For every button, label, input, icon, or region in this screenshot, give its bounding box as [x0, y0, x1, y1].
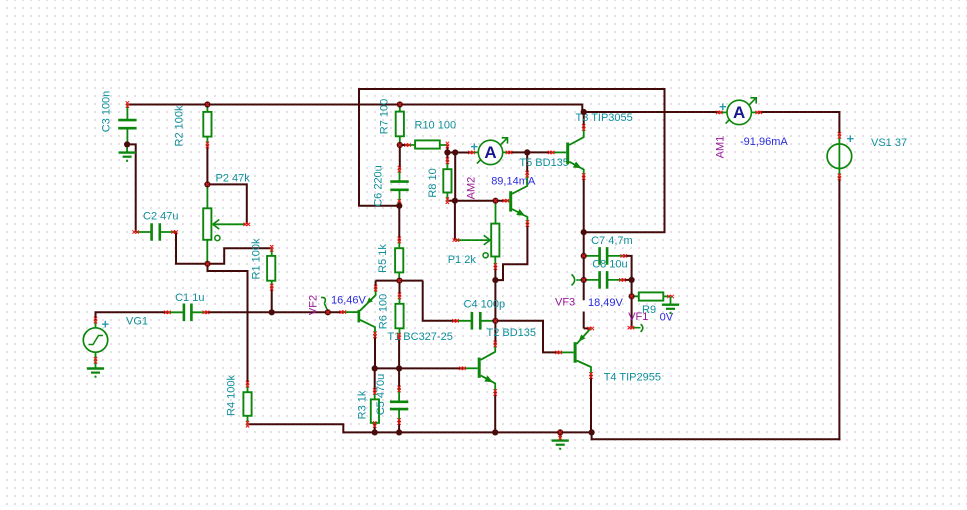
resistor R3 [371, 399, 379, 423]
junction T3 emitter node [581, 229, 587, 235]
wire R7 junction to C6 [399, 145, 401, 169]
pin end x T1 collector [373, 332, 376, 335]
junction C5 bottom rail [396, 429, 402, 435]
wire R4 bottom run [248, 423, 345, 425]
pin x on junction R9 left [630, 295, 634, 299]
potentiometer P1 wiper arrow [484, 235, 491, 245]
pin end x T3 base [548, 151, 551, 154]
pin end x C8 right [619, 278, 622, 281]
wire step up to R4 line [342, 424, 344, 433]
resistor R8 [443, 169, 451, 192]
transistor T2 emitter arrow [484, 375, 494, 385]
svg-text:18,49V: 18,49V [588, 297, 624, 309]
junction C6 bottom [396, 203, 402, 209]
pin end x C2 left [132, 230, 135, 233]
svg-text:0V: 0V [660, 312, 674, 324]
ground under C3 [126, 144, 128, 152]
junction R3 bottom rail [372, 429, 378, 435]
transistor T5 collector [512, 174, 527, 194]
capacitor C2 [152, 223, 160, 241]
svg-text:-91,96mA: -91,96mA [740, 136, 788, 148]
resistor R1 pins [271, 248, 273, 287]
capacitor C7 pins [584, 255, 624, 257]
junction T2 emitter rail [492, 429, 498, 435]
pin end x VG1 bottom [94, 357, 97, 360]
wire R10 left stub [400, 144, 408, 146]
wire R1 bottom to signal line [271, 287, 273, 312]
pin end x R6 bottom [397, 333, 400, 336]
wire AM2 right to T3 base [509, 151, 551, 153]
junction T3 collector node [581, 109, 587, 115]
svg-text:VS1 37: VS1 37 [871, 137, 907, 149]
pin x on junction R2 top [206, 103, 210, 107]
wire R5 bottom node horizontal [376, 280, 423, 282]
wire C5 top [398, 368, 400, 389]
pin end x P1 bottom [494, 263, 497, 266]
junction VF2 node [325, 309, 331, 315]
wire C1 to T1 base signal line [206, 311, 343, 313]
wire step up to bottom rail [591, 432, 593, 440]
capacitor C1 [184, 304, 192, 322]
pin end x C5 bottom [397, 418, 400, 421]
wire R4 top to P2 bottom node [208, 264, 248, 384]
pin x on junction P1 top [494, 199, 498, 203]
pin end x VF1 [628, 326, 631, 329]
transistor T3 emitter [569, 162, 584, 177]
pin end x C1 left [164, 311, 167, 314]
pin end x AM2 left [468, 151, 471, 154]
ammeter AM2 pins [472, 151, 509, 153]
wire C8 node down to VF1 [631, 280, 633, 328]
potentiometer P2 pins [206, 184, 208, 263]
svg-text:C8 10u: C8 10u [592, 259, 627, 271]
pin end x R3 top [373, 388, 376, 391]
transistor T5 emitter [512, 209, 527, 224]
junction C8 left VF3 node [581, 277, 587, 283]
wire T4 collector down to rail [590, 376, 592, 433]
resistor R3 pins [374, 392, 376, 425]
junction rail ground [557, 429, 563, 435]
svg-text:VG1: VG1 [126, 316, 148, 328]
wire VS1 bottom down right side [838, 177, 840, 440]
capacitor C6 [390, 182, 408, 190]
pin end x C6 top [398, 166, 401, 169]
pin end x R1 bottom [270, 284, 273, 287]
svg-text:A: A [484, 143, 496, 162]
junction R10-R8 node [444, 149, 450, 155]
resistor R5 pins [398, 240, 400, 281]
wire R6 bottom to T2 base line [398, 336, 400, 368]
pin end x VS1 bottom [838, 174, 841, 177]
probe VF3 [572, 274, 584, 285]
wire C7 right to C8 right node [624, 256, 632, 280]
resistor R7 [396, 112, 404, 137]
resistor R4 pins [247, 384, 249, 424]
wire to AM1 left [581, 111, 719, 113]
pin end x rail ground [559, 433, 562, 436]
capacitor C5 [390, 402, 408, 409]
wire R5 node to T1 emitter [375, 281, 377, 289]
transistor T2 emitter [481, 375, 496, 392]
wire P1 base line [455, 200, 506, 202]
potentiometer P1 wiper [456, 239, 490, 241]
wire bottom right run [592, 438, 841, 440]
svg-text:AM1: AM1 [715, 136, 727, 159]
ground on bottom rail [559, 432, 561, 440]
transistor T4 base pin [559, 351, 574, 353]
wire T2 emitter down to rail [494, 393, 496, 433]
svg-text:R2 100k: R2 100k [174, 105, 186, 146]
pin end x C4 left [452, 319, 455, 322]
potentiometer P1 o mark [483, 253, 488, 258]
pin end x R6 top [398, 293, 401, 296]
wire R1 top to P2 bottom node [208, 248, 272, 263]
svg-text:R3 1k: R3 1k [357, 390, 369, 419]
pin end x P1 wiper [453, 238, 456, 241]
wire C4 node to T4 base [495, 321, 558, 353]
capacitor C4 pins [456, 320, 496, 322]
junction R7 top [397, 101, 403, 107]
pin end x C5 top [397, 386, 400, 389]
pin end x T1 emitter [374, 285, 377, 288]
junction P2 bottom node [204, 261, 210, 267]
transistor T2 bar [478, 358, 481, 378]
transistor T1 bar [358, 310, 361, 323]
svg-text:C6 220u: C6 220u [373, 165, 385, 207]
svg-text:C2 47u: C2 47u [143, 211, 178, 223]
pin end x R10 left [404, 143, 407, 146]
transistor T2 base pin [463, 367, 478, 369]
transistor T3 collector [569, 128, 584, 146]
svg-text:R5 1k: R5 1k [377, 244, 389, 273]
junction R7 bottom [397, 142, 403, 148]
resistor R5 [395, 248, 403, 272]
resistor R10 [415, 140, 440, 148]
source VS1 circle [827, 144, 852, 169]
wire T1 collector node to T2 base [375, 367, 463, 369]
transistor T3 emitter arrow [573, 162, 583, 172]
wire C8 right stub [622, 279, 631, 281]
pin end x P2 wiper [244, 223, 247, 226]
pin x on junction rail ground [558, 431, 562, 435]
source VG1 waveform [89, 336, 104, 345]
wire P2 bottom to C2 right [174, 232, 207, 264]
pin end x VG1 top [94, 317, 97, 320]
capacitor C6 pins [399, 169, 401, 202]
svg-text:T1 BC327-25: T1 BC327-25 [387, 331, 452, 343]
svg-text:C7 4,7m: C7 4,7m [591, 235, 633, 247]
pin end x R4 bottom [246, 421, 249, 424]
pin end x AM1 left [716, 111, 719, 114]
wire AM1 right to corner [759, 111, 841, 113]
pin end x R5 top [398, 237, 401, 240]
potentiometer P1 body [491, 224, 499, 257]
svg-text:16,46V: 16,46V [331, 295, 367, 307]
pin end x VS1 top [838, 132, 841, 135]
junction R2 top [204, 101, 210, 107]
svg-text:R4 100k: R4 100k [226, 375, 238, 416]
wire rail step down to ammeter line [581, 104, 583, 112]
capacitor C3 pins [126, 105, 128, 145]
label background gap over T5 collector wire [488, 175, 534, 190]
pin end x C6 bottom [398, 199, 401, 202]
svg-text:C3 100n: C3 100n [101, 91, 113, 133]
pin x on junction R5 bottom [398, 279, 402, 283]
pin x on junction C8 left [582, 278, 586, 282]
source VG1 pins [95, 320, 97, 360]
junction T1 collector node [372, 365, 378, 371]
wire corner down to VS1 top [838, 111, 840, 135]
pin x on junction P2 top [206, 183, 210, 187]
junction C4 right node [492, 318, 498, 324]
pin end x AM2 right [506, 151, 509, 154]
ammeter AM1 pins [719, 111, 759, 113]
resistor R7 pins [399, 105, 401, 146]
transistor T3 base pin [551, 151, 566, 153]
transistor T5 emitter arrow [516, 209, 526, 219]
pin end x R4 top [246, 381, 249, 384]
probe VF2 [321, 297, 328, 311]
capacitor C5 pins [398, 389, 400, 422]
pin end x T3 collector [582, 124, 585, 127]
svg-text:R8 10: R8 10 [427, 168, 439, 197]
svg-text:+: + [847, 131, 855, 146]
wire node to AM2 left [447, 152, 471, 154]
potentiometer P2 wiper [213, 223, 245, 225]
transistor T3 bar [566, 143, 569, 165]
svg-text:VF2: VF2 [308, 295, 320, 315]
transistor T1 collector [360, 320, 375, 335]
pin x on junction P2 bottom [206, 262, 210, 266]
wire C2 left up to C3 ground node [127, 144, 136, 232]
svg-text:C5 470u: C5 470u [375, 374, 387, 416]
wire VF3 node to T4 emitter [584, 327, 591, 329]
resistor R9 [639, 292, 664, 300]
pin end x T5 collector [526, 171, 529, 174]
potentiometer P2 wiper arrow [213, 220, 220, 230]
capacitor C2 pins [136, 231, 175, 233]
transistor T4 emitter [577, 328, 591, 344]
svg-text:C1 1u: C1 1u [175, 292, 204, 304]
svg-text:+: + [719, 99, 727, 114]
junction AM2 branch node [452, 149, 458, 155]
svg-text:R6 100: R6 100 [378, 294, 390, 329]
svg-text:A: A [733, 103, 745, 122]
pin end x R8 bottom [446, 197, 449, 200]
svg-text:AM2: AM2 [466, 177, 478, 200]
wire VG1 to C1 [96, 312, 168, 320]
junction R5 bottom node [396, 278, 402, 284]
junction R9 left node [629, 293, 635, 299]
pin end x T1 base [340, 310, 343, 313]
potentiometer P2 o mark [215, 235, 220, 240]
junction P1 bottom node [492, 277, 498, 283]
junction T4 collector rail [589, 429, 595, 435]
wire P2 wiper loop [207, 184, 246, 224]
svg-text:P2 47k: P2 47k [216, 173, 251, 185]
svg-text:R7 100: R7 100 [379, 99, 391, 134]
wire R3 top [374, 368, 376, 391]
ammeter AM2 [478, 140, 502, 164]
potentiometer P1 pins [494, 201, 496, 267]
pin end x T4 base [555, 351, 558, 354]
transistor T4 bar [574, 342, 577, 363]
junction P1 top [492, 198, 498, 204]
svg-text:R10 100: R10 100 [415, 120, 457, 132]
junction C7 left [581, 253, 587, 259]
pin end x R2 bottom [206, 142, 209, 145]
wire R8 top stub [446, 153, 448, 161]
transistor T5 base pin [506, 200, 509, 202]
junction R8 bottom node [452, 198, 458, 204]
wire R5 node down to C4 left [423, 281, 456, 321]
wire C6 to R5 [398, 203, 400, 241]
wire node down to P1 wiper [454, 201, 456, 240]
pin x on junction R7 bottom [398, 143, 402, 147]
pin end x R9 right [667, 295, 670, 298]
capacitor C3 [118, 120, 136, 128]
svg-text:89,14mA: 89,14mA [491, 176, 536, 188]
wire R8 bottom to node [447, 200, 455, 202]
pin end x C3 top [126, 101, 129, 104]
pin end x R1 top [270, 245, 273, 248]
pin end x R8 top [446, 158, 449, 161]
resistor R2 pins [206, 105, 208, 145]
pin end x T3 emitter [582, 173, 585, 176]
pin end x T2 base [459, 367, 462, 370]
wire T5 emitter down to P1 bottom node [496, 224, 528, 281]
pin end x T4 emitter [587, 327, 590, 330]
svg-text:C4 100p: C4 100p [464, 299, 506, 311]
wire T3 emitter node down through C7 C8 [583, 177, 585, 329]
junction R1 bottom [269, 309, 275, 315]
transistor T1 emitter arrow [364, 298, 372, 306]
ground under VG1 [95, 360, 97, 368]
wire R6 top [399, 281, 401, 296]
junction C8 right node [629, 277, 635, 283]
svg-text:VF3: VF3 [555, 297, 575, 309]
pin end x T4 collector [589, 372, 592, 375]
wire top supply rail [127, 104, 582, 106]
wire T1 collector down [374, 335, 376, 369]
potentiometer P2 body [203, 208, 211, 240]
resistor R4 [243, 392, 251, 416]
resistor R10 pins [408, 144, 448, 146]
capacitor C7 [600, 247, 608, 265]
resistor R6 pins [399, 296, 401, 336]
capacitor C4 [472, 312, 480, 330]
pin x on junction C7 left [582, 254, 586, 258]
transistor T2 collector [481, 344, 496, 360]
junction P2 top [204, 181, 210, 187]
probe VF1 [632, 324, 643, 332]
wire T5 collector up to AM2 line [526, 152, 528, 174]
resistor R9 pins [632, 295, 671, 297]
wire R3 bottom [374, 425, 376, 433]
wire bootstrap box [359, 89, 665, 232]
ammeter AM1 [727, 100, 751, 124]
svg-text:T5 BD135: T5 BD135 [519, 157, 569, 169]
resistor R1 [267, 256, 275, 281]
junction C3-ground node [124, 141, 130, 147]
pin end x T2 collector [494, 341, 497, 344]
junction T5 collector node [524, 149, 530, 155]
wire bottom ground rail [343, 431, 592, 433]
ground at R9 [670, 297, 672, 305]
capacitor C8 pins [584, 279, 623, 281]
svg-text:+: + [102, 317, 110, 332]
transistor T4 emitter arrow [576, 334, 585, 343]
wire C5 bottom [398, 422, 400, 433]
pin x on junction R7 top [398, 103, 402, 107]
capacitor C1 pins [167, 311, 206, 313]
svg-text:T2 BD135: T2 BD135 [487, 327, 537, 339]
source VS1 pins [838, 135, 840, 177]
pin end x C7 right [621, 254, 624, 257]
transistor T5 bar [509, 191, 512, 211]
pin end x R10 right [446, 142, 449, 145]
label background gap over T4 emitter wire [576, 300, 588, 311]
pin end x T2 emitter [494, 389, 497, 392]
pin end x AM1 right [756, 111, 759, 114]
resistor R6 [395, 304, 403, 329]
resistor R8 pins [446, 161, 448, 201]
junction R6 bottom node [396, 365, 402, 371]
transistor T1 base pin [343, 311, 358, 313]
transistor T1 emitter [360, 288, 376, 311]
svg-text:+: + [471, 139, 479, 154]
svg-text:R1 100k: R1 100k [251, 238, 263, 279]
wire T3 collector node [583, 112, 585, 128]
source VG1 circle [83, 328, 107, 352]
pin x on junction C4 right [494, 319, 498, 323]
transistor T4 collector [577, 361, 591, 376]
wire R10 right down to node [446, 145, 448, 153]
capacitor C8 [600, 271, 608, 289]
svg-text:P1 2k: P1 2k [448, 254, 477, 266]
wire P1 bottom to C4 right to T2 collector [494, 267, 496, 345]
pin end x T5 emitter [526, 220, 529, 223]
svg-text:VF1: VF1 [628, 311, 648, 323]
pin end x R3 bottom [373, 421, 376, 424]
wire node down to P1 base line [454, 153, 456, 201]
wire R2 bottom to P2 top [206, 145, 208, 185]
pin end x C2 right [171, 230, 174, 233]
svg-text:T4 TIP2955: T4 TIP2955 [604, 372, 661, 384]
pin x on junction VF2 node [326, 311, 330, 315]
pin end x C1 right [203, 311, 206, 314]
resistor R2 [203, 112, 211, 137]
pin end x T5 base [503, 199, 506, 202]
